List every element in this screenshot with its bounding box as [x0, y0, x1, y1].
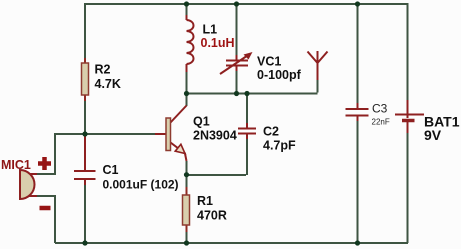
svg-text:22nF: 22nF	[372, 118, 390, 127]
svg-text:470R: 470R	[197, 209, 227, 223]
svg-text:0-100pf: 0-100pf	[257, 68, 302, 82]
mic plus polarity mark	[38, 157, 51, 170]
wire antenna drop	[317, 79, 319, 93]
mic minus polarity mark	[40, 206, 51, 211]
svg-text:0.1uH: 0.1uH	[201, 36, 235, 50]
node bottom R1 junction	[184, 240, 189, 245]
svg-text:C3: C3	[372, 102, 388, 116]
wire mic minus to ground rail	[36, 195, 55, 243]
node bus C2 junction	[244, 91, 249, 96]
transistor Q1	[155, 106, 237, 162]
wire top rail	[85, 3, 408, 5]
microphone MIC1	[1, 158, 37, 199]
battery BAT1	[395, 100, 460, 143]
node bus collector junction	[184, 91, 189, 96]
svg-text:4.7K: 4.7K	[95, 77, 121, 91]
node top VC1 junction	[234, 1, 239, 6]
resistor R2	[82, 58, 121, 101]
wire battery vertical	[407, 3, 409, 243]
capacitor C2	[238, 123, 296, 153]
wire middle bus	[187, 93, 318, 95]
svg-text:L1: L1	[203, 23, 218, 37]
capacitor C1	[74, 135, 179, 192]
svg-text:MIC1: MIC1	[1, 158, 31, 172]
wire bottom rail	[55, 242, 408, 244]
wire left vertical	[84, 3, 86, 243]
wire main center vertical	[186, 3, 188, 243]
svg-text:R2: R2	[95, 63, 111, 77]
svg-text:VC1: VC1	[257, 55, 281, 69]
svg-text:0.001uF (102): 0.001uF (102)	[103, 178, 179, 192]
capacitor C3	[346, 102, 390, 127]
variable capacitor VC1	[220, 52, 302, 82]
resistor R1	[183, 187, 227, 232]
inductor L1	[187, 15, 235, 72]
wire mic plus to base node	[36, 134, 160, 175]
svg-text:R1: R1	[197, 194, 213, 208]
node bottom C3 junction	[355, 240, 360, 245]
wire C2 branch	[187, 93, 247, 176]
svg-text:9V: 9V	[424, 127, 442, 143]
svg-text:C2: C2	[263, 125, 279, 139]
svg-text:4.7pF: 4.7pF	[263, 139, 296, 153]
wire C3 vertical	[357, 3, 359, 243]
svg-text:2N3904: 2N3904	[193, 128, 237, 142]
node base junction	[82, 131, 87, 136]
node bus VC1 junction	[234, 91, 239, 96]
antenna	[308, 51, 328, 80]
node bottom C1 junction	[82, 240, 87, 245]
svg-text:Q1: Q1	[193, 115, 210, 129]
node top L1 junction	[184, 1, 189, 6]
node top C3 junction	[355, 1, 360, 6]
node emitter junction	[184, 172, 189, 177]
wire VC1 vertical	[236, 3, 238, 94]
svg-text:C1: C1	[103, 163, 119, 177]
